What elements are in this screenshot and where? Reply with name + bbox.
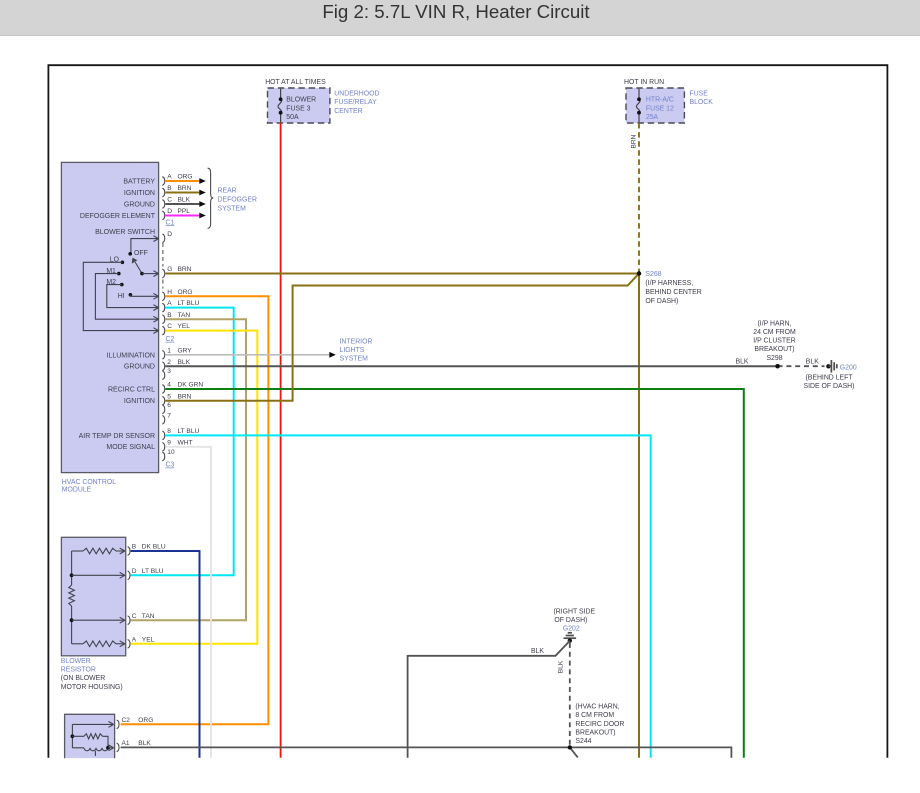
svg-text:INTERIOR: INTERIOR xyxy=(340,338,373,345)
svg-text:BLOCK: BLOCK xyxy=(690,99,714,106)
svg-text:DK GRN: DK GRN xyxy=(178,382,204,389)
svg-text:BREAKOUT): BREAKOUT) xyxy=(575,729,615,736)
svg-text:BLK: BLK xyxy=(178,359,191,366)
svg-text:B: B xyxy=(167,312,172,319)
wire BLK from G202 to junction with A1 BLK path xyxy=(408,641,570,758)
svg-text:BATTERY: BATTERY xyxy=(123,179,155,186)
svg-text:(I/P HARNESS,: (I/P HARNESS, xyxy=(645,280,693,287)
svg-text:BLOWER: BLOWER xyxy=(286,97,316,104)
svg-text:D: D xyxy=(167,231,172,238)
resistor pin D label xyxy=(128,568,164,580)
svg-text:ORG: ORG xyxy=(178,174,193,181)
svg-text:BLK: BLK xyxy=(178,197,191,204)
svg-text:I/P CLUSTER: I/P CLUSTER xyxy=(753,338,795,345)
svg-text:C: C xyxy=(167,323,172,330)
wire BLK dashed from S298 to ground G200 xyxy=(778,358,825,366)
blower switch common contact wire to pin G xyxy=(140,271,158,277)
svg-text:HTR-A/C: HTR-A/C xyxy=(646,97,674,104)
svg-text:ORG: ORG xyxy=(178,289,193,296)
svg-text:SIDE OF DASH): SIDE OF DASH) xyxy=(804,383,855,390)
brace and label REAR DEFOGGER SYSTEM xyxy=(208,168,257,228)
svg-text:AIR TEMP DR SENSOR: AIR TEMP DR SENSOR xyxy=(79,433,155,440)
svg-text:GROUND: GROUND xyxy=(124,202,155,209)
connector C3 pin 3 xyxy=(162,368,171,380)
svg-text:D: D xyxy=(167,208,172,215)
svg-text:C: C xyxy=(132,613,137,620)
svg-text:H: H xyxy=(167,289,172,296)
blower switch contact LO xyxy=(110,257,124,265)
HVAC module internal pin-function labels xyxy=(79,179,156,452)
connector C3 pin 7 xyxy=(162,412,171,424)
svg-text:S298: S298 xyxy=(766,355,782,362)
svg-text:HOT AT ALL TIMES: HOT AT ALL TIMES xyxy=(265,79,326,86)
svg-text:9: 9 xyxy=(167,439,171,446)
ground G200 xyxy=(804,360,857,390)
blower motor box M1 xyxy=(65,714,115,758)
svg-text:HVAC CONTROL: HVAC CONTROL xyxy=(62,479,116,486)
blower switch wiper arrow (common to OFF) xyxy=(132,258,142,274)
svg-text:3: 3 xyxy=(167,368,171,375)
connector C2 pin C wire YEL to resistor pin A xyxy=(131,323,258,644)
svg-text:B: B xyxy=(132,544,137,551)
svg-text:LT BLU: LT BLU xyxy=(142,568,164,575)
splice S244 xyxy=(570,747,578,757)
blower resistor internal rail xyxy=(70,551,74,644)
fuse F: BLOWER FUSE 3 50A xyxy=(278,89,316,123)
splice dot S244 (overlay) xyxy=(568,745,572,749)
svg-text:A: A xyxy=(167,300,172,307)
svg-text:G: G xyxy=(167,266,172,273)
connector C3 pin 6 xyxy=(162,402,171,414)
power label HOT AT ALL TIMES xyxy=(265,79,326,86)
connector C3 pin 2 wire BLK to S298 xyxy=(162,358,777,370)
fuse box FUSE BLOCK xyxy=(626,88,713,123)
svg-text:ILLUMINATION: ILLUMINATION xyxy=(107,352,156,359)
svg-text:DK BLU: DK BLU xyxy=(142,544,166,551)
svg-text:MODE SIGNAL: MODE SIGNAL xyxy=(106,444,155,451)
resistor pin A label xyxy=(128,636,155,648)
blower switch contact M2 xyxy=(106,279,123,287)
splice S268 xyxy=(637,271,702,305)
resistor element row A xyxy=(72,641,125,647)
svg-text:RECIRC DOOR: RECIRC DOOR xyxy=(575,721,624,728)
connector C3 pin 8 wire LT BLU down right side xyxy=(162,428,650,758)
wire from M2 contact to pin A xyxy=(107,285,159,311)
svg-text:BLK: BLK xyxy=(138,740,151,747)
svg-text:25A: 25A xyxy=(646,114,659,121)
svg-text:MOTOR HOUSING): MOTOR HOUSING) xyxy=(61,684,123,691)
connector C3 pin 9 wire WHT down xyxy=(162,439,211,757)
svg-text:24 CM FROM: 24 CM FROM xyxy=(753,329,796,336)
resistor vertical element xyxy=(69,585,75,606)
connector C3 pin 4 wire DK GRN down right side xyxy=(162,382,744,758)
blower switch contact OFF xyxy=(128,250,147,257)
svg-text:LIGHTS: LIGHTS xyxy=(340,347,365,354)
svg-text:OF DASH): OF DASH) xyxy=(645,298,678,305)
svg-text:10: 10 xyxy=(167,449,175,456)
svg-text:G202: G202 xyxy=(563,626,580,633)
svg-text:FUSE 12: FUSE 12 xyxy=(646,105,674,112)
svg-text:50A: 50A xyxy=(286,114,299,121)
motor pin A1 wire BLK ground path xyxy=(117,740,732,758)
svg-text:(RIGHT SIDE: (RIGHT SIDE xyxy=(553,608,595,615)
connector C3 pin 5 wire BRN to S268 xyxy=(162,275,637,405)
svg-text:S244: S244 xyxy=(575,738,591,745)
svg-text:8: 8 xyxy=(167,428,171,435)
blower switch OFF contact wire to pin D xyxy=(131,236,159,253)
svg-text:CENTER: CENTER xyxy=(334,108,362,115)
svg-text:1: 1 xyxy=(167,347,171,354)
svg-text:ORG: ORG xyxy=(138,717,153,724)
svg-text:BLK: BLK xyxy=(531,648,544,655)
svg-text:C1: C1 xyxy=(166,219,175,226)
svg-text:5: 5 xyxy=(167,393,171,400)
fuse box UNDERHOOD FUSE/RELAY CENTER xyxy=(268,88,380,123)
svg-text:C2: C2 xyxy=(166,336,175,343)
wire RED from Blower Fuse 3 down xyxy=(280,123,282,758)
label INTERIOR LIGHTS SYSTEM xyxy=(340,338,373,362)
svg-text:RESISTOR: RESISTOR xyxy=(61,667,96,674)
svg-text:SYSTEM: SYSTEM xyxy=(218,206,247,213)
svg-text:LT BLU: LT BLU xyxy=(178,300,200,307)
svg-text:G200: G200 xyxy=(840,364,857,371)
svg-text:UNDERHOOD: UNDERHOOD xyxy=(334,90,379,97)
svg-text:B: B xyxy=(167,185,172,192)
blower motor internals xyxy=(71,722,114,757)
connector C2 dashed link line xyxy=(162,243,164,289)
resistor pin B wire DK BLU down xyxy=(128,544,200,758)
svg-text:A: A xyxy=(167,174,172,181)
svg-text:D: D xyxy=(132,568,137,575)
power label HOT IN RUN xyxy=(624,79,664,86)
connector label C1 xyxy=(166,219,175,226)
svg-text:OFF: OFF xyxy=(134,250,148,257)
fuse F: HTR-A/C FUSE 12 25A xyxy=(636,89,674,123)
svg-text:HOT IN RUN: HOT IN RUN xyxy=(624,79,664,86)
svg-text:7: 7 xyxy=(167,412,171,419)
svg-text:(ON BLOWER: (ON BLOWER xyxy=(61,675,105,682)
HVAC control module U1 xyxy=(61,162,158,493)
svg-text:BLK: BLK xyxy=(558,660,565,673)
row D link to pin xyxy=(72,572,125,578)
svg-text:4: 4 xyxy=(167,382,171,389)
svg-text:BRN: BRN xyxy=(178,266,192,273)
connector C2 pin H wire ORG to blower motor xyxy=(121,289,269,724)
svg-text:TAN: TAN xyxy=(142,613,155,620)
svg-text:Fig 2: 5.7L VIN R, Heater Circ: Fig 2: 5.7L VIN R, Heater Circuit xyxy=(322,1,590,22)
ground G202 xyxy=(553,608,595,643)
connector label C3 xyxy=(166,462,175,469)
motor pin C2 (orange feed) xyxy=(117,717,154,729)
svg-text:PPL: PPL xyxy=(178,208,191,215)
svg-text:(I/P HARN,: (I/P HARN, xyxy=(758,320,792,327)
svg-text:2: 2 xyxy=(167,359,171,366)
svg-text:DEFOGGER: DEFOGGER xyxy=(218,197,257,204)
svg-text:TAN: TAN xyxy=(178,312,191,319)
svg-text:BRN: BRN xyxy=(631,134,638,148)
svg-text:8 CM FROM: 8 CM FROM xyxy=(575,712,614,719)
svg-text:MODULE: MODULE xyxy=(62,487,92,494)
splice dot S298 (overlay) xyxy=(775,364,779,368)
svg-text:SYSTEM: SYSTEM xyxy=(340,356,369,363)
splice dot S268 (overlay) xyxy=(637,271,641,275)
connector C1 pins A-D with wires to rear defogger xyxy=(162,174,206,220)
svg-text:DEFOGGER ELEMENT: DEFOGGER ELEMENT xyxy=(80,213,156,220)
connector C2 pin G wire BRN to S268 xyxy=(162,266,639,278)
wire BLK dashed from G202 to S244 xyxy=(558,643,625,745)
svg-text:(HVAC HARN,: (HVAC HARN, xyxy=(575,704,619,711)
svg-text:GRY: GRY xyxy=(178,347,193,354)
svg-text:BRN: BRN xyxy=(178,185,192,192)
connector label C2 xyxy=(166,336,175,343)
svg-text:IGNITION: IGNITION xyxy=(124,398,155,405)
title bar xyxy=(0,0,920,36)
wire from M1 contact to pin B xyxy=(95,274,158,323)
connector C2 pin B wire TAN to resistor pin C xyxy=(131,312,246,620)
resistor pin C label xyxy=(128,613,155,625)
svg-text:6: 6 xyxy=(167,402,171,409)
wire BRN from S268 down xyxy=(638,274,640,758)
svg-text:C2: C2 xyxy=(122,717,131,724)
svg-text:FUSE: FUSE xyxy=(690,90,709,97)
svg-text:IGNITION: IGNITION xyxy=(124,190,155,197)
svg-text:(BEHIND LEFT: (BEHIND LEFT xyxy=(805,374,853,381)
svg-text:A1: A1 xyxy=(122,740,130,747)
svg-text:OF DASH): OF DASH) xyxy=(554,617,587,624)
svg-text:C3: C3 xyxy=(166,462,175,469)
svg-text:C: C xyxy=(167,197,172,204)
wire from LO contact to pin C xyxy=(83,262,158,333)
wire from HI contact to pin H xyxy=(130,293,158,299)
svg-text:WHT: WHT xyxy=(178,439,193,446)
svg-text:BREAKOUT): BREAKOUT) xyxy=(754,346,794,353)
connector C3 pin 1 wire GRY to interior lights xyxy=(162,347,335,359)
svg-text:BLK: BLK xyxy=(806,358,819,365)
wire BRN dashed from HTR-A/C Fuse 12 to S268 xyxy=(631,123,639,272)
blower switch pin D arc xyxy=(162,231,172,243)
svg-text:FUSE/RELAY: FUSE/RELAY xyxy=(334,99,377,106)
svg-text:YEL: YEL xyxy=(178,323,191,330)
svg-text:REAR: REAR xyxy=(218,187,237,194)
blower switch contact HI xyxy=(118,293,133,300)
svg-text:BLK: BLK xyxy=(736,358,749,365)
svg-text:FUSE 3: FUSE 3 xyxy=(286,105,310,112)
svg-text:A: A xyxy=(132,636,137,643)
resistor element row B xyxy=(72,548,125,554)
svg-text:BEHIND CENTER: BEHIND CENTER xyxy=(645,289,701,296)
svg-text:BLOWER: BLOWER xyxy=(61,658,91,665)
svg-text:RECIRC CTRL: RECIRC CTRL xyxy=(108,387,155,394)
row C link to pin xyxy=(72,617,125,623)
splice S298 xyxy=(753,320,796,368)
svg-text:S268: S268 xyxy=(645,271,661,278)
connector C3 pin 10 xyxy=(162,449,175,461)
svg-text:BRN: BRN xyxy=(178,393,192,400)
svg-text:BLOWER SWITCH: BLOWER SWITCH xyxy=(95,229,155,236)
svg-text:YEL: YEL xyxy=(142,636,155,643)
svg-text:LT BLU: LT BLU xyxy=(178,428,200,435)
svg-text:HI: HI xyxy=(118,293,125,300)
connector C2 pin A wire LT BLU to resistor pin D xyxy=(131,300,234,575)
blower switch contact M1 xyxy=(106,268,120,276)
svg-text:GROUND: GROUND xyxy=(124,364,155,371)
blower resistor box R1 xyxy=(61,537,126,691)
